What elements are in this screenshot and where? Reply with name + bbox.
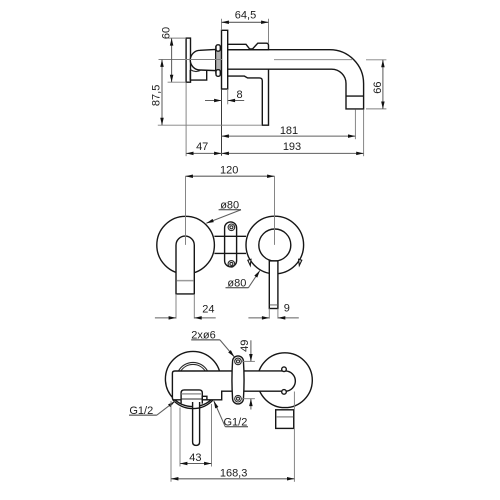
lower nut: [216, 70, 220, 77]
leader ø80 lower: [248, 271, 260, 288]
svg-text:66: 66: [372, 81, 384, 93]
leader ø80 upper: [206, 210, 241, 224]
dim 47: [185, 83, 187, 157]
outlet square: [276, 410, 294, 429]
wall bracket capsule: [232, 356, 244, 404]
svg-text:G1/2: G1/2: [223, 416, 247, 428]
inner sleeve arc inner: [181, 364, 206, 371]
right circle flange from above: [258, 353, 313, 408]
svg-text:49: 49: [239, 340, 251, 352]
dim 9: [268, 309, 270, 319]
leader G1/2 right: [214, 401, 226, 427]
svg-text:2xø6: 2xø6: [191, 330, 215, 342]
svg-text:ø80: ø80: [227, 277, 246, 289]
leader G1/2 left: [157, 401, 175, 415]
inner sleeve arc outer: [178, 362, 207, 371]
spout hub: [181, 390, 202, 404]
dim 87,5: [158, 124, 262, 126]
svg-text:47: 47: [196, 141, 208, 153]
svg-text:8: 8: [237, 89, 243, 101]
dim 64,5: [268, 19, 270, 44]
dim 43: [179, 408, 181, 467]
dim 168,3: [170, 401, 172, 482]
left lug on handle flange: [248, 259, 251, 265]
svg-text:168,3: 168,3: [220, 467, 248, 479]
leader 2xø6: [220, 340, 234, 357]
mounting tab capsule: [225, 222, 237, 267]
handle cap lower piece and lever: [228, 69, 269, 125]
spout down tube: [176, 236, 194, 294]
dim 24: [175, 294, 177, 319]
centerline inside spout: [274, 59, 352, 61]
hub band dark: [181, 398, 202, 400]
lever pivot dot bottom: [282, 390, 287, 395]
wall face extension line: [221, 89, 223, 156]
svg-text:24: 24: [202, 303, 214, 315]
left circle flange: [157, 216, 215, 274]
dim 193: [363, 109, 365, 156]
circle lower arc overlay: [173, 400, 213, 409]
handle cap upper piece: [228, 43, 269, 50]
dim 8: [227, 89, 229, 104]
svg-text:ø80: ø80: [220, 200, 239, 212]
bracket hole bottom: [235, 395, 242, 402]
escutcheon wall flange: [222, 30, 228, 89]
lever pivot dot top: [282, 367, 287, 372]
left circle escutcheon from above: [165, 351, 220, 406]
bracket hole top: [235, 358, 242, 365]
tab hole top: [228, 224, 235, 231]
hub band gray: [181, 393, 202, 395]
right lug on handle flange: [299, 259, 302, 265]
concealed body cartridge: [190, 49, 215, 70]
svg-text:G1/2: G1/2: [129, 405, 153, 417]
svg-text:181: 181: [280, 125, 298, 137]
body under dome arc: [191, 70, 201, 72]
wall plate: [186, 38, 190, 82]
svg-text:9: 9: [284, 303, 290, 315]
svg-text:60: 60: [160, 27, 172, 39]
svg-text:64,5: 64,5: [235, 10, 256, 22]
dim 120: [185, 176, 187, 245]
svg-text:120: 120: [220, 165, 238, 177]
svg-text:193: 193: [283, 141, 301, 153]
hub step: [202, 396, 207, 400]
body lower block: [190, 70, 206, 80]
lever band: [270, 304, 277, 306]
spout tube band: [177, 280, 194, 282]
lever bar: [269, 261, 278, 309]
dim 66: [366, 59, 386, 61]
centerline spout axis: [159, 59, 223, 61]
svg-text:43: 43: [189, 452, 201, 464]
handle ring: [259, 229, 291, 261]
connector bar top edge: [214, 235, 246, 237]
spout: [228, 50, 364, 109]
spout tube from above: [193, 402, 200, 445]
dim 60: [168, 37, 187, 39]
connector bar bottom edge: [214, 252, 246, 254]
dim 49: [242, 360, 255, 362]
outlet square band: [276, 416, 293, 418]
mixer body with lever seen from above: [172, 371, 295, 400]
tab hole bottom: [228, 261, 235, 268]
aerator line: [346, 95, 364, 97]
dim 181: [354, 109, 356, 139]
right circle flange: [246, 216, 304, 274]
upper nut: [216, 45, 220, 51]
threaded tube: [216, 46, 222, 73]
svg-text:87,5: 87,5: [151, 85, 163, 106]
